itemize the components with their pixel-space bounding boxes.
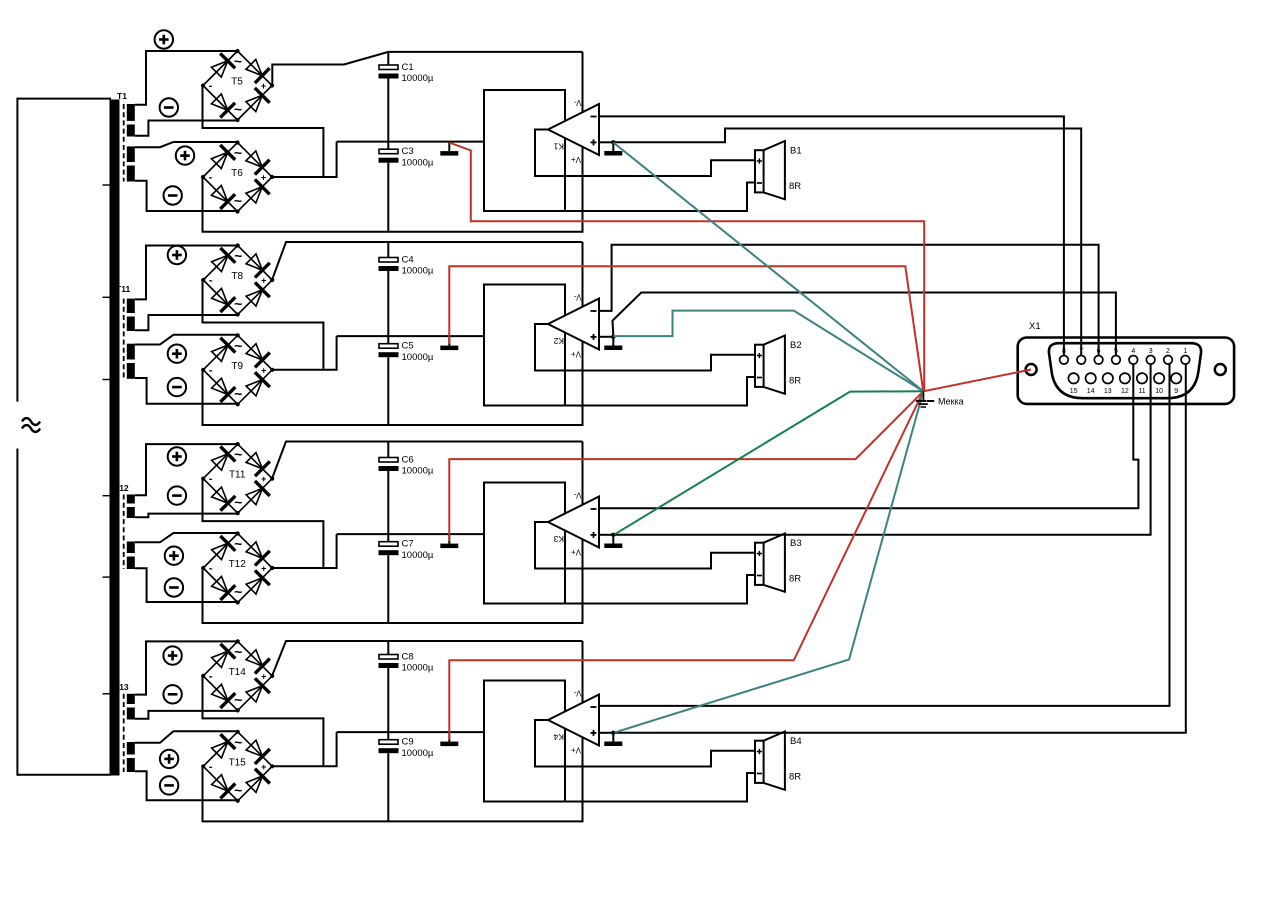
capacitor C9	[379, 737, 434, 759]
svg-text:C4: C4	[402, 255, 414, 266]
svg-text:~: ~	[234, 734, 242, 750]
wire C3 to −V rail	[387, 163, 389, 232]
wire secondary to T15 ~ (bottom)	[135, 771, 238, 800]
wire secondary to T5 ~ (top)	[135, 51, 238, 105]
polarity mark + (channel 1)	[176, 146, 194, 164]
X1 pin 14	[1086, 373, 1096, 383]
svg-text:-: -	[209, 80, 213, 92]
speaker B4	[755, 732, 802, 790]
svg-text:~: ~	[234, 145, 242, 161]
node op-amp K3 + input	[611, 533, 615, 537]
X1 pin 7	[1077, 356, 1086, 365]
svg-text:-: -	[209, 563, 213, 575]
transformer secondary winding 6	[127, 542, 135, 570]
capacitor C4	[379, 255, 434, 277]
svg-text:10000µ: 10000µ	[402, 266, 434, 277]
wire speaker − return	[565, 575, 755, 604]
X1 pin 7 number	[1079, 348, 1083, 355]
svg-text:~: ~	[234, 193, 242, 209]
svg-text:10000µ: 10000µ	[402, 748, 434, 759]
wire C6-C7 midpoint	[387, 471, 389, 542]
svg-text:K1: K1	[553, 142, 564, 152]
svg-text:T6: T6	[231, 168, 243, 179]
transformer secondary winding 4	[127, 344, 135, 379]
wire C4 stem	[387, 242, 389, 258]
AC source symbol ~~	[22, 418, 40, 432]
svg-text:B4: B4	[790, 736, 802, 747]
op-amp K3	[548, 491, 599, 557]
transformer secondary winding 5	[127, 495, 135, 519]
svg-text:V+: V+	[571, 746, 581, 755]
wire +V rail (T11 + to C6)	[272, 442, 583, 479]
transformer T11 label	[116, 284, 130, 294]
bridge rectifier T6	[201, 140, 274, 213]
ground (op-amp K1 +)	[604, 142, 622, 155]
wire T15 + output to 0V rail	[273, 732, 337, 766]
wire AC loop bottom	[17, 449, 111, 776]
X1 pin 13	[1103, 373, 1113, 383]
wire K2 − input to X1 pin 6	[599, 245, 1099, 356]
svg-text:8R: 8R	[789, 574, 801, 585]
svg-text:K4: K4	[553, 732, 564, 742]
svg-text:K3: K3	[553, 534, 564, 544]
wire C7 to −V rail	[387, 555, 389, 623]
node op-amp K1 + input	[611, 140, 615, 144]
amplifier module outline (K4)	[484, 681, 565, 802]
polarity mark + (channel 3)	[165, 547, 183, 565]
transformer primary junction tick	[103, 379, 111, 381]
X1 pin 9 number	[1174, 388, 1178, 395]
svg-text:10000µ: 10000µ	[402, 466, 434, 477]
wire secondary to T6 ~ (top)	[135, 142, 238, 147]
wire C8 stem	[387, 641, 389, 655]
svg-text:T13: T13	[114, 682, 129, 692]
transformer secondary winding 2	[127, 146, 135, 181]
wire (red) C3 ground to Mekka	[449, 143, 924, 392]
op-amp K4	[548, 689, 599, 755]
transformer secondary winding 3	[127, 299, 135, 331]
svg-text:+: +	[261, 474, 266, 484]
svg-text:8R: 8R	[789, 181, 801, 192]
wire secondary to T11 ~ (top)	[135, 444, 238, 495]
transformer primary junction tick	[103, 693, 111, 695]
polarity mark + (channel 4)	[160, 750, 178, 768]
wire secondary to T6 ~ (bottom)	[135, 181, 238, 211]
X1 pin 5 number	[1114, 348, 1118, 355]
svg-text:-: -	[209, 670, 213, 682]
svg-text:3: 3	[1149, 348, 1153, 355]
svg-text:-: -	[209, 473, 213, 485]
X1 pin 12 number	[1121, 388, 1129, 395]
transformer secondary winding 7	[127, 694, 135, 720]
svg-text:8R: 8R	[789, 376, 801, 387]
op-amp K2	[548, 293, 599, 359]
svg-text:V-: V-	[574, 293, 582, 302]
X1 pin 8 number	[1062, 348, 1066, 355]
svg-text:4: 4	[1131, 348, 1135, 355]
X1 pin 15 number	[1070, 388, 1078, 395]
svg-text:B3: B3	[790, 538, 802, 549]
amplifier module outline (K3)	[484, 483, 565, 604]
wire speaker − return	[565, 773, 755, 802]
bridge rectifier T15	[201, 730, 274, 803]
svg-text:~: ~	[234, 248, 242, 264]
capacitor C1	[379, 62, 434, 84]
X1 pin 5	[1112, 356, 1121, 365]
wire (teal) K4 ground to Mekka	[615, 391, 924, 732]
wire T12 + output to 0V rail	[273, 534, 337, 568]
X1 pin 1 number	[1183, 348, 1187, 355]
svg-text:~: ~	[234, 53, 242, 69]
wire 0V rail (to amp block)	[337, 141, 484, 143]
svg-text:T8: T8	[231, 271, 243, 282]
svg-text:10000µ: 10000µ	[402, 73, 434, 84]
svg-text:15: 15	[1070, 388, 1078, 395]
transformer T1 label	[117, 91, 127, 101]
svg-text:T12: T12	[229, 559, 247, 570]
wire +V rail (T8 + to C4)	[272, 242, 583, 280]
X1 pin 3 number	[1149, 348, 1153, 355]
wire K3 + input to X1 pin 3	[613, 364, 1150, 535]
wire C1-C3 midpoint	[387, 79, 389, 150]
wire C4-C5 midpoint	[387, 271, 389, 344]
wire C1 stem	[387, 52, 389, 65]
wire T11 - output to T12 +	[203, 479, 324, 567]
svg-text:T9: T9	[231, 361, 243, 372]
svg-text:~: ~	[234, 296, 242, 312]
wire speaker − return	[565, 377, 755, 406]
svg-text:~: ~	[234, 446, 242, 462]
svg-text:B2: B2	[790, 340, 802, 351]
wire (green) K3 ground to Mekka	[615, 391, 924, 534]
wire speaker − return	[565, 183, 755, 212]
ground (near C7)	[440, 534, 458, 548]
svg-text:C6: C6	[402, 455, 414, 466]
X1 pin 15	[1068, 373, 1078, 383]
node op-amp K4 + input	[611, 731, 615, 735]
wire 0V rail (to amp block)	[337, 335, 484, 337]
svg-text:V+: V+	[571, 155, 581, 164]
wire secondary to T15 ~ (top)	[135, 731, 238, 743]
polarity mark − (channel 2)	[168, 378, 186, 396]
svg-text:T14: T14	[229, 667, 247, 678]
wire −V rail (T12 − to C7)	[203, 442, 583, 624]
connector X1 label	[1029, 321, 1041, 332]
wire secondary to T8 ~ (top)	[135, 246, 238, 300]
node Mekka (star ground)	[916, 391, 964, 407]
X1 pin 12	[1120, 373, 1130, 383]
wire secondary to T11 ~ (bottom)	[135, 514, 238, 518]
wire −V rail (T15 − to C9)	[203, 641, 583, 821]
wire secondary to T9 ~ (top)	[135, 335, 238, 345]
svg-text:-: -	[209, 761, 213, 773]
wire C5 to −V rail	[387, 357, 389, 425]
wire K3 − input to X1 pin 4	[599, 364, 1138, 508]
svg-text:10000µ: 10000µ	[402, 157, 434, 168]
svg-text:X1: X1	[1029, 321, 1041, 332]
X1 pin 10 number	[1155, 388, 1163, 395]
transformer secondary winding 8	[127, 742, 135, 772]
svg-text:9: 9	[1174, 388, 1178, 395]
transformer secondary winding 1	[127, 104, 135, 137]
X1 pin 1	[1181, 356, 1190, 365]
wire K4 − input to X1 pin 2	[599, 364, 1170, 706]
X1 pin 13 number	[1104, 388, 1112, 395]
wire (teal) K2 ground to Mekka	[613, 311, 923, 392]
polarity mark − (channel 3)	[165, 578, 183, 596]
amplifier module outline (K1)	[484, 90, 565, 211]
svg-text:-: -	[209, 364, 213, 376]
polarity mark − (channel 1)	[164, 186, 182, 204]
polarity mark − (channel 4)	[160, 776, 178, 794]
transformer primary junction tick	[103, 495, 111, 497]
speaker B1	[755, 141, 802, 199]
svg-text:+: +	[261, 564, 266, 574]
wire C8-C9 midpoint	[387, 668, 389, 740]
svg-text:11: 11	[1138, 388, 1145, 395]
wire secondary to T12 ~ (top)	[135, 533, 238, 542]
transformer T12 label	[114, 483, 129, 493]
wire secondary to T5 ~ (bottom)	[135, 121, 238, 136]
ground (near C9)	[440, 732, 458, 746]
svg-text:~: ~	[234, 643, 242, 659]
svg-text:K2: K2	[553, 336, 564, 346]
wire K1 + input stub	[599, 141, 614, 143]
svg-text:~: ~	[234, 536, 242, 552]
svg-text:10000µ: 10000µ	[402, 352, 434, 363]
wire (red) C9 ground to Mekka	[449, 391, 923, 740]
svg-text:~: ~	[234, 691, 242, 707]
svg-text:10000µ: 10000µ	[402, 550, 434, 561]
svg-text:+: +	[261, 173, 266, 183]
X1 pin 4 number	[1131, 348, 1135, 355]
ground (op-amp K2 +)	[604, 337, 622, 350]
transformer primary junction tick	[103, 576, 111, 578]
wire T14 - output to T15 +	[203, 676, 324, 765]
svg-text:T15: T15	[229, 757, 247, 768]
svg-text:~: ~	[234, 584, 242, 600]
transformer core (dashed) 4	[123, 694, 125, 772]
svg-text:C7: C7	[402, 539, 414, 550]
svg-text:Мекка: Мекка	[938, 397, 964, 407]
wire (red) C7 ground to Mekka	[449, 391, 923, 541]
wire +V rail (T5 + to C1)	[272, 52, 582, 86]
connector X1 mounting hole left	[1026, 364, 1037, 375]
wire −V rail (T9 − to C5)	[203, 242, 583, 425]
wire 0V rail (to amp block)	[337, 731, 484, 733]
transformer T13 label	[114, 682, 129, 692]
svg-text:13: 13	[1104, 388, 1112, 395]
X1 pin 14 number	[1087, 388, 1095, 395]
wire T5 - output to T6 +	[203, 86, 324, 177]
wire C9 to −V rail	[387, 753, 389, 821]
speaker B3	[755, 534, 802, 592]
op-amp K1	[548, 98, 599, 164]
polarity mark + (channel 1)	[155, 30, 173, 48]
transformer primary winding (T1/T11/T12/T13)	[110, 100, 120, 776]
connector X1 shell	[1018, 338, 1234, 404]
svg-text:~: ~	[234, 385, 242, 401]
svg-text:C5: C5	[402, 341, 414, 352]
wire K2 output to speaker +	[535, 324, 755, 371]
svg-text:T5: T5	[231, 77, 243, 88]
X1 pin 3	[1146, 356, 1155, 365]
polarity mark + (channel 4)	[163, 646, 181, 664]
svg-text:~: ~	[234, 101, 242, 117]
wire T6 + output to 0V rail	[273, 142, 337, 177]
polarity mark + (channel 3)	[168, 447, 186, 465]
svg-text:C1: C1	[402, 62, 414, 73]
svg-text:+: +	[261, 276, 266, 286]
wire secondary to T8 ~ (bottom)	[135, 315, 238, 330]
svg-text:8R: 8R	[789, 772, 801, 783]
ground (op-amp K3 +)	[604, 535, 622, 548]
transformer primary junction tick	[103, 296, 111, 298]
wire AC loop top	[17, 98, 111, 402]
polarity mark + (channel 2)	[168, 345, 186, 363]
svg-text:B1: B1	[790, 146, 802, 157]
wire (red) C5 ground to Mekka	[449, 266, 923, 391]
svg-text:~: ~	[234, 782, 242, 798]
polarity mark − (channel 1)	[160, 98, 178, 116]
svg-text:C9: C9	[402, 737, 414, 748]
ground (op-amp K4 +)	[604, 733, 622, 746]
wire K3 output to speaker +	[535, 522, 755, 569]
wire (red) Mekka to X1 mounting hole	[923, 370, 1031, 392]
svg-text:-: -	[209, 275, 213, 287]
capacitor C5	[379, 341, 434, 363]
wire T8 - output to T9 +	[203, 280, 324, 369]
wire K1 + input to X1 pin 7	[613, 129, 1081, 356]
svg-text:V+: V+	[571, 548, 581, 557]
X1 pin 11 number	[1138, 388, 1145, 395]
bridge rectifier T9	[201, 333, 274, 406]
wire K2 + input stub	[599, 336, 614, 338]
svg-text:V-: V-	[574, 689, 582, 698]
polarity mark + (channel 2)	[168, 246, 186, 264]
svg-text:T12: T12	[114, 483, 129, 493]
X1 pin 6	[1094, 356, 1103, 365]
X1 pin 2	[1164, 356, 1173, 365]
svg-text:2: 2	[1166, 348, 1170, 355]
node op-amp K2 + input	[611, 335, 615, 339]
bridge rectifier T11	[201, 442, 274, 515]
capacitor C6	[379, 455, 434, 477]
bridge rectifier T12	[201, 531, 274, 604]
wire secondary to T14 ~ (top)	[135, 641, 238, 694]
capacitor C7	[379, 539, 434, 561]
ground (near C3)	[440, 142, 458, 156]
bridge rectifier T14	[201, 639, 274, 712]
svg-text:14: 14	[1087, 388, 1095, 395]
wire K4 + input to X1 pin 1	[613, 364, 1186, 733]
svg-text:1: 1	[1183, 348, 1187, 355]
X1 pin 11	[1137, 373, 1147, 383]
svg-text:+: +	[261, 365, 266, 375]
X1 pin 2 number	[1166, 348, 1170, 355]
svg-text:~: ~	[234, 337, 242, 353]
bridge rectifier T5	[201, 49, 274, 122]
svg-text:~: ~	[234, 494, 242, 510]
wire K4 output to speaker +	[535, 720, 755, 767]
svg-text:10000µ: 10000µ	[402, 663, 434, 674]
amplifier module outline (K2)	[484, 285, 565, 406]
svg-text:C3: C3	[402, 146, 414, 157]
transformer core (dashed) 1	[123, 104, 125, 182]
transformer core (dashed) 3	[123, 495, 125, 570]
wire K1 − input to X1 pin 8	[599, 116, 1064, 355]
X1 pin 8	[1060, 356, 1069, 365]
wire −V rail (T6 − to C3)	[203, 52, 583, 232]
capacitor C3	[379, 146, 434, 168]
ground (near C5)	[440, 336, 458, 350]
svg-text:T11: T11	[116, 284, 130, 294]
svg-text:12: 12	[1121, 388, 1129, 395]
wire K1 output to speaker +	[535, 130, 755, 177]
X1 pin 9	[1171, 373, 1181, 383]
svg-text:T11: T11	[229, 470, 246, 481]
svg-text:+: +	[261, 762, 266, 772]
wire secondary to T9 ~ (bottom)	[135, 378, 238, 404]
wire T9 + output to 0V rail	[273, 336, 337, 370]
speaker B2	[755, 336, 802, 394]
svg-text:V-: V-	[574, 98, 582, 107]
svg-text:V+: V+	[571, 350, 581, 359]
polarity mark − (channel 4)	[163, 685, 181, 703]
transformer primary junction tick	[103, 184, 111, 186]
svg-text:+: +	[261, 81, 266, 91]
wire +V rail (T14 + to C8)	[272, 641, 583, 676]
svg-text:10: 10	[1155, 388, 1163, 395]
connector X1 mounting hole right	[1215, 364, 1226, 375]
X1 pin 6 number	[1097, 348, 1101, 355]
bridge rectifier T8	[201, 243, 274, 316]
wire secondary to T14 ~ (bottom)	[135, 711, 238, 719]
X1 pin 10	[1154, 373, 1164, 383]
capacitor C8	[379, 652, 434, 674]
X1 pin 4	[1129, 356, 1138, 365]
wire (teal) K1 ground to Mekka	[613, 143, 923, 392]
svg-text:V-: V-	[574, 491, 582, 500]
wire secondary to T12 ~ (bottom)	[135, 568, 238, 602]
wire K3 + input stub	[599, 534, 614, 536]
wire 0V rail (to amp block)	[337, 533, 484, 535]
svg-text:+: +	[261, 671, 266, 681]
svg-text:-: -	[209, 172, 213, 184]
svg-text:T1: T1	[117, 91, 127, 101]
svg-text:C8: C8	[402, 652, 414, 663]
polarity mark − (channel 3)	[168, 486, 186, 504]
wire C6 stem	[387, 442, 389, 458]
wire K2 + input to X1 pin 5	[613, 293, 1116, 356]
wire K4 + input stub	[599, 732, 614, 734]
transformer core (dashed) 2	[123, 299, 125, 379]
